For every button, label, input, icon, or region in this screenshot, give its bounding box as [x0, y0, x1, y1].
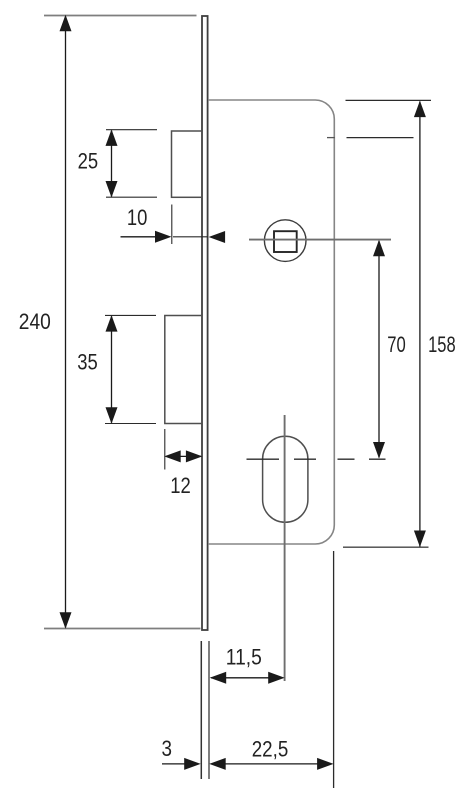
svg-text:70: 70 — [387, 332, 406, 357]
svg-text:3: 3 — [162, 736, 173, 761]
dimension 25 — [106, 129, 158, 197]
svg-text:25: 25 — [78, 149, 99, 174]
svg-text:11,5: 11,5 — [226, 645, 262, 670]
dimension 10 — [121, 205, 226, 245]
dimension 158 — [414, 101, 426, 547]
cylinder centerline dash-dot horizontal — [247, 458, 386, 460]
dimension 22,5 — [224, 758, 334, 770]
svg-text:22,5: 22,5 — [252, 737, 289, 762]
latch bolt — [172, 131, 203, 197]
dimension 3 — [162, 758, 226, 770]
body top extension line — [346, 99, 432, 101]
label 158 — [428, 332, 456, 357]
faceplate extension line bottom — [44, 628, 201, 630]
reference line 137 — [347, 137, 414, 139]
deadbolt — [165, 316, 202, 424]
body bottom extension line — [343, 546, 429, 548]
faceplate lower extension lines — [201, 641, 209, 779]
label 240 — [19, 309, 51, 334]
label 22,5 — [252, 737, 289, 762]
svg-text:12: 12 — [170, 473, 191, 498]
faceplate — [202, 16, 208, 630]
cylinder centerline vertical — [284, 415, 286, 681]
cylinder hole oval — [263, 436, 308, 522]
spindle hole square — [274, 231, 297, 252]
dimension 35 — [105, 315, 156, 424]
faceplate extension line top — [44, 15, 197, 17]
label 11,5 — [226, 645, 262, 670]
dimension 12 — [164, 429, 202, 470]
svg-text:35: 35 — [77, 349, 98, 374]
svg-text:158: 158 — [428, 332, 456, 357]
body edge tick — [327, 137, 335, 139]
svg-text:10: 10 — [127, 205, 148, 230]
label 25 — [78, 149, 99, 174]
label 35 — [77, 349, 98, 374]
lock body — [208, 100, 334, 544]
spindle hole circle — [264, 220, 306, 262]
spindle centerline horizontal — [249, 239, 391, 241]
dimension 11,5 — [210, 672, 285, 684]
label 70 — [387, 332, 406, 357]
body right extension line — [333, 551, 335, 788]
label 10 — [127, 205, 148, 230]
svg-text:240: 240 — [19, 309, 51, 334]
label 12 — [170, 473, 191, 498]
dimension 240 line — [60, 15, 72, 629]
dimension 70 — [373, 240, 385, 459]
label 3 — [162, 736, 173, 761]
